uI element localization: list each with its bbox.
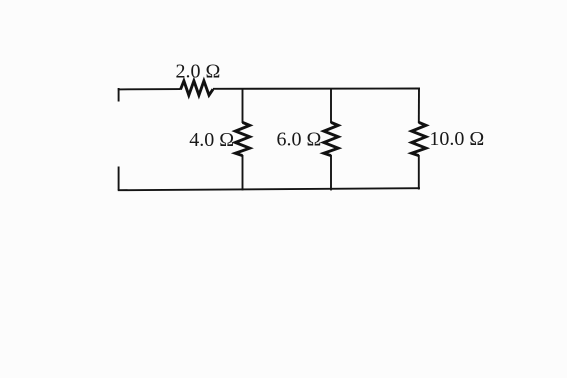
- wire: right edge vertical top lead (R4 to top rail): [418, 88, 420, 124]
- wire: right edge vertical bottom lead (R4 to bottom rail): [418, 155, 420, 190]
- svg-text:4.0 Ω: 4.0 Ω: [189, 129, 234, 151]
- wire: left terminal stub bottom (open terminal b): [118, 167, 120, 191]
- wire: left terminal stub top (open terminal a): [118, 88, 120, 102]
- wire: branch 1 vertical bottom lead (R2 to bottom rail): [242, 155, 244, 190]
- resistor 10.0 ohm (vertical zigzag, right edge): [412, 122, 426, 155]
- wire: branch 2 vertical bottom lead (R3 to bottom rail): [330, 155, 332, 190]
- svg-text:10.0 Ω: 10.0 Ω: [429, 128, 484, 150]
- wire: branch 2 vertical top lead (R3 to top rail): [330, 88, 332, 123]
- wire: branch 1 vertical top lead (R2 to top rail): [242, 88, 244, 123]
- wire: top rail from R1 to node B and across to right edge: [213, 88, 420, 90]
- wire: top rail left segment (node A to R1): [118, 88, 181, 90]
- svg-text:6.0 Ω: 6.0 Ω: [277, 129, 322, 151]
- resistor 2.0 ohm (horizontal zigzag in top rail): [181, 81, 214, 95]
- svg-text:2.0 Ω: 2.0 Ω: [176, 60, 221, 82]
- resistor 6.0 ohm (vertical zigzag, branch 2): [324, 122, 338, 155]
- wire: bottom rail (node D, full width): [118, 188, 420, 190]
- resistor 4.0 ohm (vertical zigzag, branch 1): [235, 122, 249, 155]
